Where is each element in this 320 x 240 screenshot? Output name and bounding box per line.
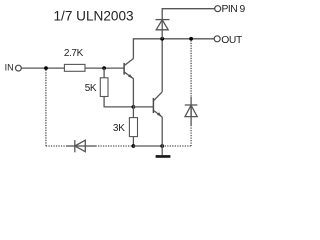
resistor R3 3K xyxy=(129,118,137,137)
dashed wire D2 to bottom rail xyxy=(190,125,192,146)
diode D3 input clamp xyxy=(75,140,86,152)
wire node C to R3 xyxy=(132,107,134,118)
svg-text:2.7K: 2.7K xyxy=(64,48,84,59)
svg-text:PIN 9: PIN 9 xyxy=(222,4,246,15)
dashed wire node G down to D2 xyxy=(190,40,192,97)
wire solid lead into D3 xyxy=(66,145,75,147)
transistor Q2 xyxy=(153,92,162,118)
node C junction xyxy=(132,105,136,109)
svg-text:OUT: OUT xyxy=(221,35,243,46)
resistor R1 2.7K xyxy=(64,64,85,71)
svg-text:1/7 ULN2003: 1/7 ULN2003 xyxy=(54,8,134,23)
svg-text:3K: 3K xyxy=(113,123,125,134)
svg-text:5K: 5K xyxy=(85,83,97,94)
wire R2 bottom to node C xyxy=(104,97,133,107)
terminal PIN 9 xyxy=(215,6,221,12)
wire OUT rail xyxy=(133,38,214,40)
node F junction OUT rail / D1 xyxy=(160,37,164,41)
wire node B to R2 xyxy=(103,68,105,78)
wire IN to R1 xyxy=(21,67,64,69)
wire solid lead through D2 xyxy=(190,97,192,125)
dashed wire D3 to node D xyxy=(96,145,134,147)
dashed wire node A down xyxy=(45,70,47,146)
wire R3 bottom to node D xyxy=(132,137,134,146)
wire Q2 emitter down to node E xyxy=(161,117,163,146)
node A junction xyxy=(44,66,48,70)
node E junction xyxy=(160,144,164,148)
wire node D to node E xyxy=(133,145,162,147)
wire D1 to PIN 9 xyxy=(162,9,214,20)
wire solid lead out of D3 xyxy=(85,145,95,147)
dashed wire node E to D2 corner xyxy=(162,145,191,147)
dashed wire bottom left toward D3 xyxy=(46,145,66,147)
ground xyxy=(156,146,171,158)
node G junction OUT rail / D2 xyxy=(189,37,193,41)
terminal OUT xyxy=(214,36,220,42)
resistor R2 5K xyxy=(100,78,108,97)
node B junction xyxy=(102,66,106,70)
transistor Q1 xyxy=(124,59,134,79)
wire Q1 collector up to OUT rail xyxy=(132,39,134,59)
wire R1 to Q1 base xyxy=(85,67,124,69)
diode D1 flyback to PIN 9 xyxy=(156,20,170,39)
wire node C to Q2 base xyxy=(133,106,152,108)
wire Q2 collector up to OUT rail xyxy=(161,39,163,92)
node D junction xyxy=(132,144,136,148)
terminal IN xyxy=(16,65,22,71)
svg-text:IN: IN xyxy=(5,63,14,73)
diode D2 output clamp xyxy=(185,105,198,117)
wire Q1 emitter down to node C xyxy=(132,79,134,107)
